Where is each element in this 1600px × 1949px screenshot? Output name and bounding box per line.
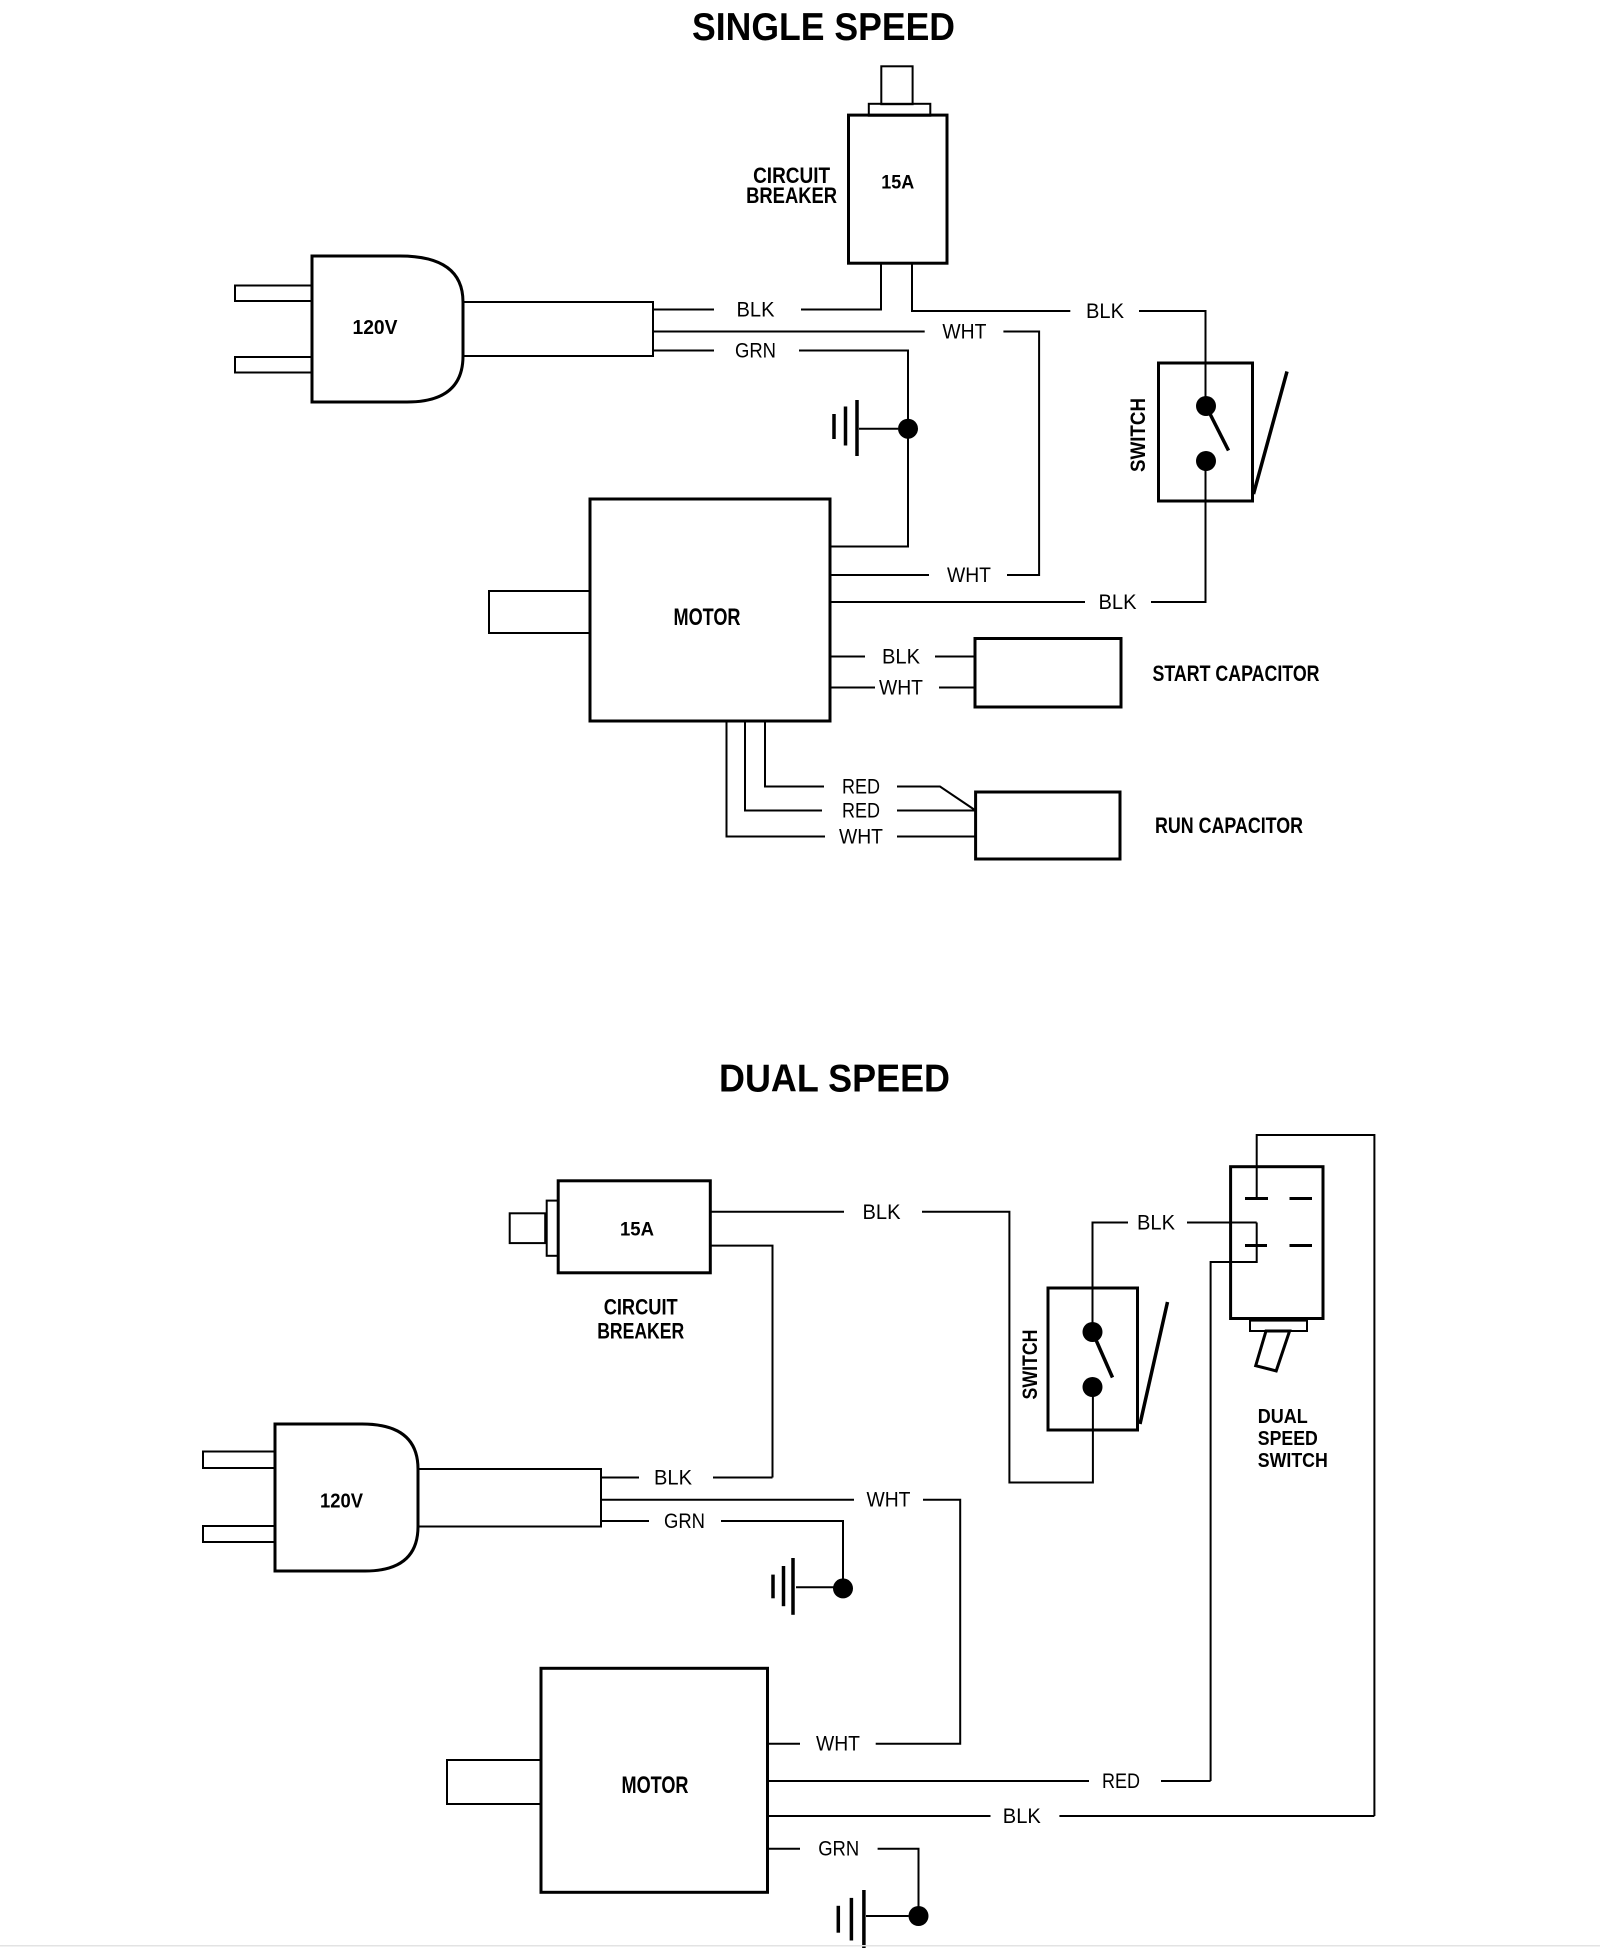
S3 toggle flange [1250,1321,1307,1331]
wire GRN down to ground [878,1849,919,1910]
svg-text:120V: 120V [320,1491,364,1513]
label CIRCUIT BREAKER (CB1) [746,163,837,208]
label DUAL SPEED SWITCH [1258,1406,1328,1472]
wire WHT to motor [830,574,929,576]
svg-text:WHT: WHT [947,564,991,587]
wire GRN from motor M2 [768,1848,801,1850]
motor M1 shaft [489,591,590,633]
wire BLK from plug [653,309,714,311]
plug P1 body [312,256,463,402]
wire GRN from plug P2 [601,1520,649,1522]
wire BLK breaker CB2 lower terminal to plug [710,1246,772,1478]
svg-text:BLK: BLK [1099,591,1137,614]
svg-text:RED: RED [842,800,880,823]
plug P1 cable [463,302,653,356]
switch S2 toggle bat [1140,1302,1168,1424]
plug P2 cable [418,1469,601,1527]
svg-text:SWITCH: SWITCH [1258,1450,1328,1472]
switch S2 lever [1093,1332,1113,1378]
switch S1 top contact [1196,396,1216,416]
svg-text:BREAKER: BREAKER [597,1319,684,1344]
junction dot ground G1 [898,419,918,439]
wire BLK to breaker left terminal [801,263,881,309]
switch S1 lever [1206,406,1229,451]
motor M2 body [541,1668,768,1892]
wire RED 2 from motor bottom [745,721,822,811]
switch S2 box [1048,1288,1138,1430]
circuit breaker CB2 flange [547,1201,559,1256]
wire BLK into switch bottom [1151,461,1206,602]
circuit breaker CB2 body [558,1181,710,1273]
svg-text:BLK: BLK [1137,1212,1175,1235]
wire BLK from switch S2 top to dual speed switch [1093,1223,1129,1333]
switch S1 bottom contact [1196,451,1216,471]
plug P2 lower prong [203,1526,275,1542]
S3 terminal dash bottom-left [1245,1244,1267,1247]
svg-text:BLK: BLK [654,1467,692,1490]
svg-text:WHT: WHT [879,677,923,700]
svg-text:BLK: BLK [863,1201,901,1224]
plug P2 body [275,1424,418,1571]
svg-text:SINGLE SPEED: SINGLE SPEED [692,6,955,49]
svg-text:MOTOR: MOTOR [674,604,741,631]
wire BLK motor to start capacitor [830,656,865,658]
junction dot ground G2 [833,1578,853,1598]
wire BLK from breaker right terminal [912,263,1070,311]
svg-text:WHT: WHT [839,826,883,849]
svg-text:120V: 120V [353,317,399,339]
svg-text:BLK: BLK [882,646,920,669]
svg-text:GRN: GRN [818,1838,859,1861]
scan artifact line at bottom [0,1945,1600,1947]
wire BLK into dual speed switch [1187,1222,1257,1224]
wire WHT from motor bottom [727,721,826,837]
circuit breaker CB1 body [849,115,948,263]
wire WHT from plug [653,331,925,333]
S3 terminal dash top-left [1245,1197,1268,1200]
svg-text:WHT: WHT [867,1489,911,1512]
svg-text:SWITCH: SWITCH [1019,1330,1042,1400]
wire WHT into start capacitor [939,687,975,689]
svg-text:15A: 15A [881,172,914,193]
svg-text:BLK: BLK [737,299,775,322]
wire BLK from motor to switch [830,601,1085,603]
circuit breaker CB2 button [510,1213,546,1243]
wire GRN from plug [653,350,714,352]
motor M2 shaft [447,1760,541,1804]
wire BLK from breaker CB2 [710,1211,844,1213]
start capacitor C1 [975,639,1121,708]
switch S1 toggle bat [1254,372,1288,495]
wire WHT down right side [1003,332,1039,576]
wire RED from motor M2 [768,1780,1090,1782]
wire BLK from plug P2 [601,1477,639,1479]
svg-text:GRN: GRN [664,1510,705,1533]
plug P2 upper prong [203,1452,275,1469]
svg-text:WHT: WHT [816,1733,860,1756]
wire RED 2 into run capacitor [897,810,976,812]
svg-text:RED: RED [842,776,880,799]
dual speed switch S3 box [1231,1167,1323,1319]
svg-text:GRN: GRN [735,340,776,363]
switch S2 bottom contact [1083,1377,1103,1397]
svg-text:CIRCUIT: CIRCUIT [604,1295,678,1320]
wire BLK to right rail [1059,1815,1374,1817]
wire WHT down to motor M2 [876,1500,961,1744]
S3 terminal dash bottom-right [1290,1244,1313,1247]
wire GRN down to ground [721,1521,843,1582]
svg-text:BLK: BLK [1086,300,1124,323]
circuit breaker CB1 flange [869,104,931,116]
svg-text:MOTOR: MOTOR [622,1772,689,1799]
wire WHT into run capacitor [897,836,976,838]
svg-text:SWITCH: SWITCH [1127,398,1150,472]
wire BLK from motor M2 [768,1815,991,1817]
wire WHT motor to start capacitor [830,687,875,689]
svg-text:RED: RED [1102,1770,1140,1793]
svg-text:DUAL: DUAL [1258,1406,1308,1428]
wire GRN down to motor [799,351,908,547]
wire BLK into switch top [1139,311,1206,406]
wire BLK into start capacitor [935,656,975,658]
wire RED to riser [1161,1780,1211,1782]
wire WHT from plug P2 [601,1499,854,1501]
svg-text:SPEED: SPEED [1258,1428,1318,1450]
ground symbol G2 [773,1558,834,1615]
label CIRCUIT BREAKER (CB2) [597,1295,684,1344]
S3 toggle bat [1256,1331,1290,1371]
motor M1 body [590,499,830,721]
svg-text:DUAL SPEED: DUAL SPEED [719,1058,950,1101]
switch S2 top contact [1083,1322,1103,1342]
wire BLK joining breaker drop [713,1477,773,1479]
plug P1 upper prong [235,286,312,302]
wire from S3 top-left terminal over to right rail [1257,1135,1375,1816]
switch S1 box [1159,363,1253,501]
plug P1 lower prong [235,357,312,373]
circuit breaker CB1 button [881,66,912,104]
svg-text:RUN CAPACITOR: RUN CAPACITOR [1155,813,1303,838]
junction dot ground G3 [909,1906,929,1926]
svg-text:15A: 15A [620,1220,654,1241]
svg-text:BLK: BLK [1003,1805,1041,1828]
svg-text:START CAPACITOR: START CAPACITOR [1153,661,1320,686]
ground symbol G1 [834,400,898,456]
wire WHT into motor M2 [768,1743,801,1745]
S3 terminal dash top-right [1290,1197,1313,1200]
wire RED 1 from motor bottom [765,721,824,787]
wire RED jog into S3 [1211,1223,1257,1782]
ground symbol G3 [838,1890,908,1948]
run capacitor C2 [976,792,1120,859]
wire RED 1 diagonal into run capacitor [897,787,976,811]
svg-text:WHT: WHT [942,321,986,344]
svg-text:BREAKER: BREAKER [746,183,837,208]
wire BLK down to switch S2 bottom [922,1212,1093,1483]
